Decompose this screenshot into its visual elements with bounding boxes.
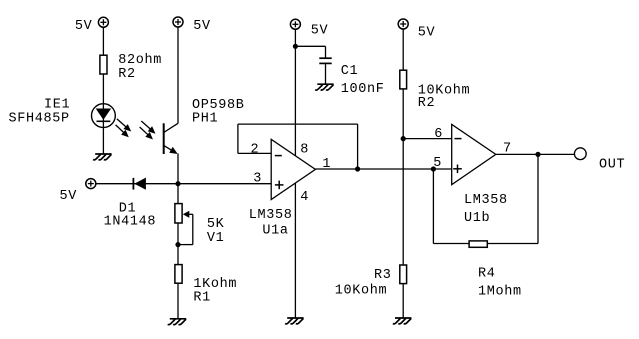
svg-text:5V: 5V: [193, 19, 211, 34]
svg-text:4: 4: [300, 190, 309, 205]
wire 5V terminal to PH1 collector: [177, 27, 179, 124]
svg-text:R2: R2: [418, 96, 436, 111]
diode D1 triangle: [134, 178, 146, 190]
label R4: [478, 267, 496, 282]
svg-text:1: 1: [322, 157, 331, 172]
svg-text:3: 3: [253, 171, 262, 186]
junction dot (pin 5 / R4): [431, 166, 436, 171]
ground (below R3): [393, 318, 412, 324]
svg-text:1Mohm: 1Mohm: [478, 285, 522, 300]
op-amp U1a minus mark: [275, 155, 282, 157]
wire C1 top lead: [325, 46, 327, 57]
op-amp U1a triangle: [271, 139, 315, 199]
svg-text:IE1: IE1: [44, 97, 70, 112]
pin number 2: [251, 143, 260, 158]
phototransistor PH1 emitter lead with arrow: [164, 145, 178, 154]
label 10Kohm (divider top): [418, 84, 471, 99]
wire node to potentiometer V1: [177, 184, 179, 204]
label 100nF: [341, 82, 385, 97]
svg-text:V1: V1: [207, 231, 225, 246]
capacitor C1 bottom plate: [319, 62, 331, 64]
label C1: [341, 64, 359, 79]
wire divider node to U1b pin 6: [403, 138, 452, 140]
svg-text:R4: R4: [478, 267, 496, 282]
output terminal OUT: [574, 148, 586, 160]
pin number 1: [322, 157, 331, 172]
junction dot (U1b output): [535, 152, 540, 157]
light reception arrow 2 into PH1: [140, 127, 153, 140]
label LM358 (U1a): [249, 208, 293, 223]
svg-text:U1a: U1a: [262, 224, 288, 239]
LED IE1 cathode bar: [97, 120, 111, 122]
resistor R2 10Kohm: [400, 70, 407, 89]
svg-text:5K: 5K: [207, 217, 225, 232]
wire U1b output: [496, 153, 575, 155]
potentiometer V1 body: [175, 204, 182, 223]
wire 5V terminal to R2: [102, 27, 104, 55]
label U1b: [464, 211, 490, 226]
label PH1: [192, 112, 218, 127]
label 1Mohm: [478, 285, 522, 300]
resistor R1 1Kohm: [175, 265, 182, 284]
pin number 8: [300, 143, 309, 158]
svg-text:5V: 5V: [418, 25, 436, 40]
junction dot (divider node): [401, 136, 406, 141]
wire C1 bottom lead: [325, 64, 327, 84]
op-amp U1b triangle: [452, 124, 496, 184]
wire U1b feedback up to pin 5: [432, 169, 434, 244]
op-amp U1a plus mark: [275, 181, 284, 190]
label R2 (82ohm): [118, 67, 136, 82]
label 1N4148: [104, 215, 157, 230]
potentiometer V1 wiper wire: [178, 214, 193, 244]
wire U1a output to U1b pin 5: [315, 168, 451, 170]
phototransistor PH1 collector lead: [164, 123, 178, 132]
power terminal 5V (reference divider): [398, 19, 408, 29]
label 5V (op-amp supply): [311, 23, 329, 38]
resistor R3 10Kohm: [400, 265, 407, 284]
svg-text:LM358: LM358: [249, 208, 293, 223]
wire U1a pin 2: [238, 152, 271, 154]
ground (below R1): [168, 319, 187, 325]
wire C1 branch horizontal: [295, 45, 325, 47]
label 5K: [207, 217, 225, 232]
label D1: [119, 201, 137, 216]
label OP598B: [192, 98, 245, 113]
svg-text:2: 2: [251, 143, 260, 158]
pin number 3: [253, 171, 262, 186]
capacitor C1 top plate: [319, 57, 331, 59]
pin number 5: [433, 156, 442, 171]
wire U1a pin 4 to ground: [294, 183, 296, 318]
svg-text:5V: 5V: [60, 189, 78, 204]
svg-text:PH1: PH1: [192, 112, 218, 127]
label U1a: [262, 224, 288, 239]
power terminal 5V (clamp): [86, 179, 96, 189]
svg-text:OUT: OUT: [599, 157, 625, 172]
wire divider node down to R3: [402, 89, 404, 265]
svg-text:R3: R3: [374, 268, 392, 283]
light emission arrow 2 from IE1: [116, 125, 129, 137]
svg-text:U1b: U1b: [464, 211, 490, 226]
svg-text:100nF: 100nF: [341, 82, 385, 97]
label 5V (clamp): [60, 189, 78, 204]
wire U1a feedback loop (pin 1 to pin 2): [238, 124, 358, 169]
light emission arrow 1 from IE1: [117, 119, 131, 132]
wire 5V terminal to R2 10Kohm: [402, 29, 404, 70]
svg-text:LM358: LM358: [464, 193, 508, 208]
svg-text:8: 8: [300, 143, 309, 158]
label R3: [374, 268, 392, 283]
label IE1: [44, 97, 70, 112]
wire R1 to ground: [177, 283, 179, 319]
junction dot (V1 wiper tie): [175, 242, 180, 247]
wire 5V terminal to U1a pin 8: [294, 29, 296, 156]
junction node (emitter / D1 / divider / pin 3): [175, 181, 180, 186]
ground (below U1a pin 4): [285, 318, 304, 324]
potentiometer V1 wiper arrow: [183, 211, 190, 218]
phototransistor PH1 base bar: [163, 123, 165, 154]
svg-text:82ohm: 82ohm: [118, 53, 162, 68]
power terminal 5V (phototransistor supply): [173, 17, 183, 27]
wire clamp 5V through D1 to op-amp pin 3: [96, 183, 272, 185]
power terminal 5V (op-amp supply): [290, 19, 300, 29]
diode D1 cathode bar: [132, 178, 134, 190]
svg-text:C1: C1: [341, 64, 359, 79]
label 1Kohm: [193, 277, 237, 292]
svg-text:SFH485P: SFH485P: [9, 112, 70, 127]
label 82ohm: [118, 53, 162, 68]
label R2 (10Kohm): [418, 96, 436, 111]
resistor R2 82ohm: [100, 55, 107, 74]
label LM358 (U1b): [464, 193, 508, 208]
svg-text:R2: R2: [118, 67, 136, 82]
junction dot (C1 tap): [293, 44, 298, 49]
wire U1b feedback bottom: [433, 243, 538, 245]
svg-text:6: 6: [434, 127, 443, 142]
ground (below LED IE1): [93, 154, 112, 160]
junction dot (U1a feedback): [355, 166, 360, 171]
ground (below C1): [315, 84, 334, 90]
light reception arrow 1 into PH1: [141, 121, 155, 134]
wire V1 to R1: [177, 223, 179, 265]
label R1: [193, 291, 211, 306]
power terminal 5V (LED supply): [98, 17, 108, 27]
svg-text:R1: R1: [193, 291, 211, 306]
label 10Kohm (R3): [335, 284, 388, 299]
pin number 4: [300, 190, 309, 205]
label OUT: [599, 157, 625, 172]
wire U1b feedback down: [537, 154, 539, 243]
op-amp U1b minus mark: [455, 138, 462, 140]
wire PH1 emitter to node: [177, 154, 179, 184]
label 5V (reference divider): [418, 25, 436, 40]
svg-text:5V: 5V: [311, 23, 329, 38]
op-amp U1b plus mark: [453, 165, 462, 174]
label V1: [207, 231, 225, 246]
label SFH485P: [9, 112, 70, 127]
pin number 7: [503, 141, 512, 156]
wire R3 to ground: [402, 284, 404, 318]
svg-text:10Kohm: 10Kohm: [335, 284, 388, 299]
svg-text:5V: 5V: [75, 19, 93, 34]
LED IE1 circle: [92, 104, 116, 128]
label 5V (phototransistor supply): [193, 19, 211, 34]
resistor R4 1Mohm: [469, 241, 487, 247]
LED IE1 anode triangle: [96, 109, 111, 120]
label 5V (LED supply): [75, 19, 93, 34]
pin number 6: [434, 127, 443, 142]
wire R2 to LED and LED to ground: [102, 74, 104, 154]
svg-text:1N4148: 1N4148: [104, 215, 157, 230]
